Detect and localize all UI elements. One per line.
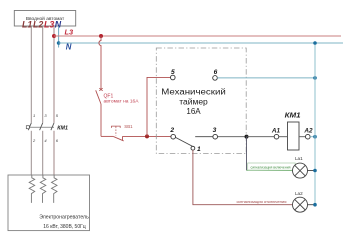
- svg-text:L3: L3: [65, 27, 75, 36]
- wire node to A1: [247, 136, 275, 138]
- terminal A1: [274, 134, 279, 139]
- node A2-N junction: [313, 135, 317, 139]
- wire green signal to La1: [247, 169, 293, 171]
- node timer feed junction: [145, 134, 149, 138]
- wire pin1 drop to La2: [193, 150, 293, 205]
- svg-text:3: 3: [44, 113, 47, 118]
- node La2-N junction: [313, 203, 317, 207]
- wire La2 to N drop: [308, 204, 316, 206]
- heating element R2: [40, 175, 46, 203]
- circuit breaker QF1: [96, 88, 103, 136]
- lamp La1: [293, 163, 308, 178]
- pin 2 terminal: [171, 134, 176, 139]
- svg-text:La1: La1: [295, 156, 303, 161]
- wire A1 to coil: [279, 136, 288, 138]
- node QF1 tap on L3 bus: [99, 34, 103, 38]
- wire pin 6 to N drop: [217, 77, 315, 79]
- terminal A2: [306, 134, 311, 139]
- svg-text:1: 1: [197, 146, 201, 153]
- pushbutton SB1: [112, 126, 124, 141]
- contactor linkage: [26, 126, 54, 129]
- wire phase L3 upper: [53, 26, 55, 123]
- svg-text:сигнализация включения: сигнализация включения: [251, 166, 291, 170]
- svg-text:SB1: SB1: [124, 124, 133, 129]
- svg-text:4: 4: [44, 138, 47, 143]
- pin 6 terminal: [213, 76, 218, 81]
- svg-text:L3: L3: [44, 19, 54, 29]
- svg-text:A1: A1: [271, 128, 281, 135]
- svg-text:автомат на 16А: автомат на 16А: [104, 98, 139, 103]
- node pin6-N junction: [313, 76, 317, 80]
- svg-text:6: 6: [56, 138, 59, 143]
- heater box (Электронагреватель): [8, 175, 90, 231]
- wire neutral stub: [58, 26, 60, 47]
- svg-text:La2: La2: [295, 191, 303, 196]
- wire QF1 drop with hop over N: [99, 36, 101, 90]
- contactor KM1 pole 2 contact: [40, 123, 43, 175]
- wire QF1 to SB1: [101, 135, 113, 137]
- svg-text:КМ1: КМ1: [57, 125, 68, 131]
- heating element R3: [52, 175, 58, 203]
- svg-text:5: 5: [56, 113, 59, 118]
- svg-text:16 кВт, 380В, 50Гц: 16 кВт, 380В, 50Гц: [43, 224, 86, 230]
- svg-text:КМ1: КМ1: [285, 111, 301, 120]
- svg-text:Механический: Механический: [161, 88, 226, 97]
- svg-text:Электронагреватель: Электронагреватель: [39, 214, 89, 220]
- node coil/lamp junction: [245, 135, 249, 139]
- timer switch blade 2-1: [176, 137, 193, 146]
- lamp La2: [293, 197, 308, 212]
- node N tap (junction dot): [57, 41, 61, 45]
- timer contact line to 3: [195, 136, 213, 138]
- contactor coil KM1: [288, 122, 300, 150]
- wire riser to timer pin 5: [147, 77, 171, 136]
- wire lamp1 branch drop: [246, 137, 248, 171]
- pin 5 terminal: [171, 75, 176, 80]
- svg-text:2: 2: [32, 138, 36, 143]
- node La1-N junction: [313, 169, 317, 173]
- pin 3 terminal: [213, 134, 218, 139]
- heating element R1: [29, 175, 35, 203]
- svg-text:сигнализация отключения: сигнализация отключения: [237, 200, 287, 204]
- wire A2 to N drop: [310, 136, 315, 138]
- mechanical timer dashed enclosure: [156, 48, 246, 154]
- pin 1 terminal: [191, 146, 195, 150]
- wire L3 bus horizontal: [54, 35, 341, 37]
- label box green signal: [248, 163, 296, 170]
- input breaker box (Вводной автомат): [14, 11, 75, 27]
- svg-text:6: 6: [214, 69, 218, 76]
- svg-text:16А: 16А: [186, 107, 201, 116]
- node N bus to drop: [313, 41, 317, 45]
- svg-text:таймер: таймер: [179, 97, 208, 106]
- svg-text:L2: L2: [33, 19, 43, 29]
- node L3 tap (junction dot): [52, 34, 56, 38]
- wire N drop vertical: [314, 43, 316, 205]
- wire La1 to N drop: [308, 170, 316, 172]
- wire pin 3 to coil node: [218, 136, 247, 138]
- svg-text:N: N: [66, 43, 72, 52]
- wire coil to A2: [299, 136, 306, 138]
- contactor KM1 pole 3 contact: [51, 123, 54, 175]
- wire phase L2 upper: [42, 26, 44, 123]
- svg-text:A2: A2: [303, 128, 313, 135]
- svg-text:1: 1: [33, 113, 35, 118]
- wire phase L1 upper: [30, 26, 32, 123]
- svg-text:3: 3: [213, 127, 217, 134]
- svg-text:5: 5: [171, 69, 175, 76]
- wire SB1 to node: [123, 135, 172, 137]
- wire N bus horizontal: [59, 42, 343, 44]
- contactor KM1 pole 1 contact: [28, 123, 31, 175]
- svg-text:2: 2: [169, 127, 174, 134]
